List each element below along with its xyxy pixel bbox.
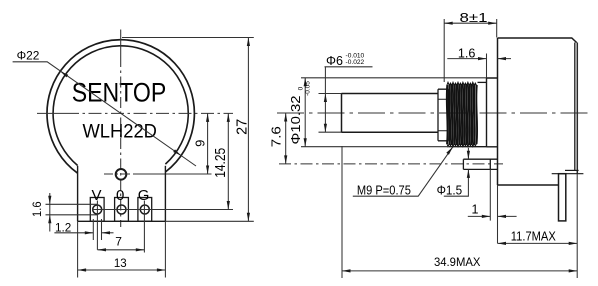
shaft outline — [342, 94, 439, 133]
dim 1.6 arrows — [48, 196, 51, 205]
dim 27 bottom ext — [165, 220, 253, 222]
Phi1.5 leader underline — [444, 169, 469, 196]
dim 13 ext lines — [77, 221, 79, 277]
plate bottom — [78, 220, 166, 222]
svg-text:0: 0 — [297, 86, 304, 90]
flange front face — [486, 78, 488, 147]
body inner circle — [53, 46, 188, 166]
svg-text:1: 1 — [472, 203, 479, 217]
body rear face outer line — [576, 43, 578, 174]
dim 27 top ext — [122, 37, 254, 39]
neck — [438, 89, 448, 141]
svg-text:1.2: 1.2 — [55, 220, 72, 234]
svg-text:Φ6: Φ6 — [326, 54, 343, 68]
svg-text:WLH22D: WLH22D — [82, 121, 157, 142]
flange top/bottom — [487, 78, 498, 147]
M9 leader — [353, 147, 453, 196]
svg-text:13: 13 — [114, 258, 127, 270]
body face ext down — [497, 185, 499, 243]
pin G vertical crosshair / ext — [143, 201, 145, 253]
vertical centerline — [120, 30, 122, 57]
dim 1 line — [468, 215, 517, 217]
rear bracket lower line — [552, 173, 584, 175]
svg-text:M9 P=0.75: M9 P=0.75 — [357, 183, 411, 197]
svg-text:7.6: 7.6 — [269, 126, 283, 147]
neck chamfer lines — [438, 99, 448, 131]
svg-text:7: 7 — [115, 234, 122, 248]
dim 1.2 line + text — [54, 232, 93, 234]
dim 13 line — [78, 269, 166, 271]
shaft hole small circle — [116, 169, 127, 180]
body rear face inner line — [574, 43, 576, 171]
dim 9 line — [207, 113, 209, 174]
dim 1.6 (flange) line — [447, 58, 511, 60]
dim 34.9MAX line — [342, 270, 577, 272]
dim Phi22 arrow bottom-right — [173, 149, 181, 155]
svg-text:Φ22: Φ22 — [17, 49, 40, 63]
dim Phi10.32 ext lines — [301, 78, 487, 147]
dim 1.2 ext lines — [92, 219, 94, 240]
svg-text:8±1: 8±1 — [460, 10, 488, 25]
M9 arrow — [446, 147, 453, 155]
plate left flat — [77, 166, 79, 222]
small circle centerline / ext for dim 9 — [104, 173, 134, 175]
rear bracket top line — [565, 169, 579, 171]
body outer circle — [47, 40, 194, 173]
dim 14.25 line — [227, 113, 229, 209]
dim Phi6 ext lines — [319, 94, 342, 133]
svg-text:SENTOP: SENTOP — [72, 78, 167, 108]
plate right flat — [164, 166, 166, 222]
svg-text:V: V — [91, 187, 101, 204]
pin G rect — [138, 198, 152, 222]
pin V vertical crosshair / ext — [96, 201, 98, 250]
smooth bushing end — [478, 81, 487, 83]
pin V rect — [90, 198, 104, 222]
body bottom edge — [498, 184, 559, 186]
pin G hole — [140, 205, 149, 214]
svg-text:Φ10.32: Φ10.32 — [288, 96, 303, 145]
svg-text:14.25: 14.25 — [213, 148, 229, 178]
body front face — [497, 38, 499, 185]
svg-text:Φ1.5: Φ1.5 — [437, 184, 463, 198]
dim Phi22 arrow top-left — [60, 71, 68, 77]
dim Phi6 leader underline — [325, 66, 373, 68]
pin V hole — [93, 205, 102, 214]
body top edge + rear chamfer — [498, 38, 577, 43]
svg-text:G: G — [138, 187, 150, 204]
dim 1.6 ext lines (pin V) — [46, 203, 98, 205]
svg-text:9: 9 — [193, 140, 208, 147]
pin hole horizontal centerline ext to dim 14.25 — [92, 209, 233, 211]
dim 7.6 line — [285, 113, 287, 164]
svg-text:1.6: 1.6 — [458, 46, 476, 60]
dim 1 ext line — [489, 169, 491, 220]
dim 8+-1 line — [444, 22, 497, 24]
dim Phi6 line — [324, 67, 326, 132]
lug centerline — [279, 163, 503, 165]
dim Phi10.32 tolerance — [297, 81, 311, 96]
dim 1.6 line — [49, 193, 51, 232]
shaft end ext line down — [341, 146, 343, 278]
pin O rect — [115, 198, 129, 222]
rear ext line down — [576, 174, 578, 278]
svg-text:0: 0 — [116, 187, 124, 204]
dim 27 line — [247, 38, 249, 222]
svg-text:-0.022: -0.022 — [346, 59, 365, 66]
main centerline — [277, 112, 592, 114]
svg-text:11.7MAX: 11.7MAX — [511, 230, 557, 244]
dim Phi22 leader shoulder — [13, 62, 196, 166]
Phi1.5 upper arrow line — [467, 148, 469, 159]
horizontal centerline — [37, 112, 66, 114]
dim Phi10.32 line — [304, 78, 306, 147]
svg-text:1.6: 1.6 — [30, 201, 44, 217]
svg-text:27: 27 — [235, 119, 251, 135]
dim 7 line — [98, 249, 145, 251]
thread block M9 — [447, 82, 477, 146]
pin O hole — [117, 205, 126, 214]
dim 1.6 (flange) ext — [486, 54, 488, 78]
dim 8+-1 ext lines — [444, 19, 497, 82]
svg-text:-0.05: -0.05 — [304, 81, 311, 96]
lug (anti-rotation tab) — [463, 159, 497, 169]
svg-text:34.9MAX: 34.9MAX — [434, 255, 481, 269]
rear pin — [559, 174, 566, 221]
dim 11.7MAX line — [498, 242, 578, 244]
